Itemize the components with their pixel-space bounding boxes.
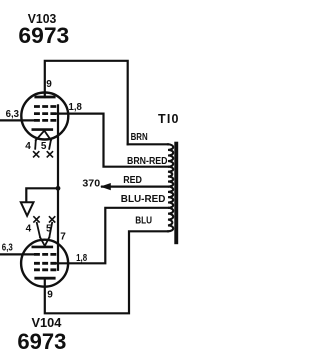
svg-text:6973: 6973 bbox=[18, 23, 69, 48]
svg-text:BLU-RED: BLU-RED bbox=[121, 194, 166, 205]
heater lead pin 4 V103 bbox=[34, 140, 37, 149]
X mark pin 5 V103 bbox=[47, 152, 52, 157]
svg-text:BRN: BRN bbox=[131, 132, 148, 143]
svg-text:5: 5 bbox=[46, 224, 52, 235]
X mark pin 4 V103 bbox=[34, 152, 39, 157]
grid row 3 V103 bbox=[34, 119, 56, 122]
grid row B V104 bbox=[34, 262, 56, 265]
ground bbox=[21, 202, 34, 216]
X mark pin 5 V104 bbox=[50, 217, 55, 222]
tube V104 envelope bbox=[21, 240, 68, 287]
transformer T101 primary winding bbox=[168, 144, 173, 231]
arrowhead 370 bbox=[100, 183, 111, 190]
svg-text:TI0: TI0 bbox=[158, 112, 179, 126]
X mark pin 4 V104 bbox=[34, 217, 39, 222]
cathode V103 bbox=[33, 128, 52, 131]
wire grid V104 (1,8) to BLU-RED tap bbox=[54, 208, 168, 263]
heater lead pin 4 V104 bbox=[37, 223, 40, 238]
svg-text:BLU: BLU bbox=[135, 215, 152, 226]
grid row 1 V103 bbox=[34, 105, 56, 108]
heater lead pin 5 V103 bbox=[49, 140, 51, 149]
heater V104 bbox=[40, 237, 49, 246]
grid row C V104 bbox=[34, 268, 56, 271]
svg-text:4: 4 bbox=[26, 224, 32, 235]
plate V104 bbox=[36, 277, 54, 280]
grid row A V104 bbox=[34, 253, 56, 256]
svg-text:9: 9 bbox=[47, 289, 53, 300]
svg-text:4: 4 bbox=[25, 141, 31, 152]
svg-text:7: 7 bbox=[60, 231, 66, 242]
svg-text:5: 5 bbox=[41, 141, 47, 152]
transformer core bbox=[174, 142, 178, 245]
wire junction to ground bbox=[26, 188, 58, 202]
svg-text:6,3: 6,3 bbox=[6, 109, 20, 120]
wire RED tap with arrow bbox=[102, 186, 168, 188]
svg-text:6,3: 6,3 bbox=[2, 243, 13, 254]
svg-text:RED: RED bbox=[123, 175, 142, 186]
heater line 6.3 V104 bbox=[0, 253, 34, 255]
grid row 2 V103 bbox=[34, 112, 56, 115]
tube V103 envelope bbox=[21, 93, 68, 140]
wire screen grids vertical (V103 to V104) bbox=[57, 105, 59, 269]
wire plate V103 to BRN tap bbox=[45, 61, 128, 145]
svg-text:9: 9 bbox=[46, 79, 52, 90]
wire BRN tap bbox=[128, 143, 168, 145]
cathode V104 bbox=[33, 246, 52, 249]
svg-text:6973: 6973 bbox=[17, 329, 66, 354]
svg-text:V104: V104 bbox=[32, 315, 63, 330]
plate V103 bbox=[36, 96, 54, 99]
heater line 6.3 V103 bbox=[0, 119, 34, 121]
wire grid V103 (1,8) to BRN-RED tap bbox=[54, 114, 168, 167]
svg-text:BRN-RED: BRN-RED bbox=[127, 156, 168, 167]
svg-text:1,8: 1,8 bbox=[76, 253, 87, 264]
heater V103 bbox=[36, 131, 51, 141]
node junction dot bbox=[56, 186, 61, 191]
wire plate V104 to BLU tap bbox=[45, 231, 168, 313]
svg-text:1,8: 1,8 bbox=[69, 102, 83, 113]
svg-text:370: 370 bbox=[82, 179, 100, 190]
heater lead pin 5 V104 bbox=[49, 223, 52, 238]
